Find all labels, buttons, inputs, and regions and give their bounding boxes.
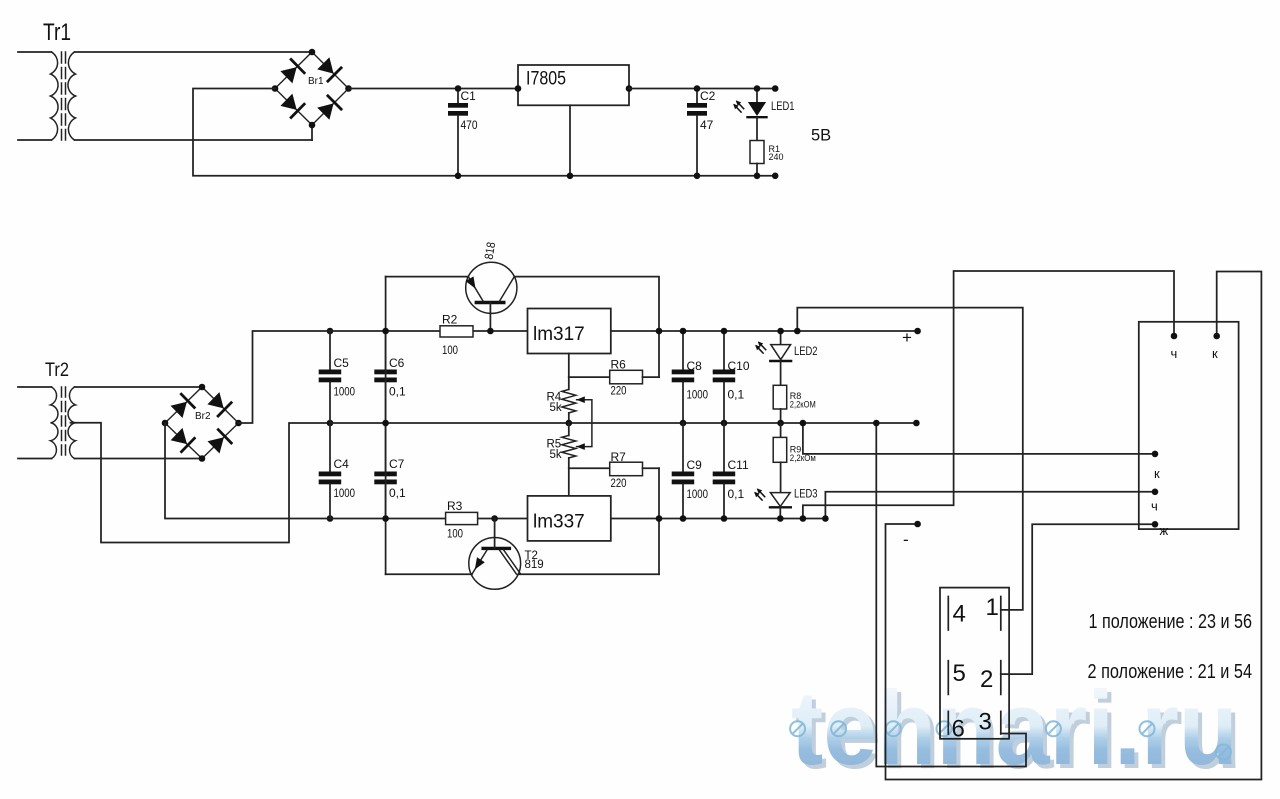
wire zh pin to pin2 [1001, 524, 1155, 674]
svg-text:1000: 1000 [687, 388, 709, 402]
wire positive rail [330, 330, 528, 332]
node Br2 left [162, 420, 169, 427]
node bus mid rail [382, 420, 389, 427]
connector block right [1139, 322, 1239, 529]
node output terminal 5V plus [772, 85, 779, 92]
node LED3 bottom [777, 515, 784, 522]
wire Br1 bottom node drop [311, 125, 313, 140]
node Br2 top [199, 384, 206, 391]
resistor R6 [610, 370, 643, 384]
capacitor C10 [713, 331, 736, 423]
svg-text:4: 4 [953, 601, 966, 628]
svg-text:1000: 1000 [334, 385, 356, 399]
node C11 bottom [721, 515, 728, 522]
svg-text:Tr1: Tr1 [43, 19, 71, 46]
svg-text:0,1: 0,1 [389, 486, 406, 500]
node bus negative rail [382, 515, 389, 522]
resistor R1 [750, 141, 764, 164]
svg-text:C4: C4 [334, 457, 350, 471]
node I7805 input pin [515, 85, 522, 92]
node R7 riser negative rail [656, 515, 663, 522]
wire Tr2 primary bottom [18, 458, 52, 460]
node terminal mid [913, 420, 920, 427]
svg-text:C5: C5 [334, 356, 350, 370]
svg-text:ж: ж [1160, 523, 1169, 538]
wire R6 to positive rail [643, 376, 660, 378]
wire Tr2 primary top [18, 386, 52, 388]
svg-text:C9: C9 [687, 458, 703, 472]
pin ch top [1171, 333, 1178, 340]
transistor T2 [469, 519, 521, 590]
svg-text:47: 47 [700, 118, 714, 132]
pin zh left [1152, 521, 1159, 528]
pin bar 4 [947, 597, 949, 631]
node mid rail pin3 branch [873, 420, 880, 427]
diode Br2 upper-left [171, 402, 187, 418]
svg-text:0,1: 0,1 [728, 388, 745, 402]
potentiometer R5 [562, 423, 576, 468]
wire k-left from mid rail [803, 423, 1155, 454]
pin bar 6 [947, 711, 949, 734]
transformer Tr2 left winding [51, 387, 58, 459]
node C9 bottom [680, 515, 687, 522]
svg-text:LED1: LED1 [771, 99, 795, 113]
svg-text:tehnari.ru: tehnari.ru [791, 670, 1238, 787]
svg-text:5k: 5k [550, 402, 562, 414]
node Br1 bottom [309, 122, 316, 129]
svg-text:R7: R7 [611, 450, 627, 464]
node Br1 right [345, 85, 352, 92]
wire adj node to R6 [569, 376, 610, 378]
wire T1 collector [514, 277, 659, 378]
svg-text:1: 1 [986, 594, 999, 621]
resistor R9 [773, 423, 787, 493]
svg-text:100: 100 [447, 527, 463, 541]
svg-text:C1: C1 [461, 89, 477, 103]
svg-text:2 положение : 21 и 54: 2 положение : 21 и 54 [1088, 660, 1253, 683]
svg-text:R2: R2 [442, 313, 458, 327]
wire mid rail [330, 422, 916, 424]
capacitor C4 [319, 423, 342, 519]
wire mid rail to pin3 [876, 423, 1026, 767]
wire R7 to negative rail riser [643, 467, 660, 469]
diode Br2 upper-right [207, 392, 223, 408]
wire lm337 adj pin [568, 468, 570, 496]
diode Br2 lower-right [208, 437, 224, 453]
wire R8 to mid rail [780, 409, 782, 423]
svg-text:2,2кОМ: 2,2кОМ [790, 400, 816, 410]
node R4 bottom mid rail [566, 420, 573, 427]
svg-text:Br2: Br2 [195, 411, 211, 422]
diode Br1 upper-left [280, 67, 296, 83]
transformer Tr1 left winding [51, 52, 59, 140]
wire lm317 adj pin [568, 354, 570, 378]
pin ch left [1152, 489, 1159, 496]
node T1 base [487, 328, 494, 335]
regulator I7805 [518, 65, 629, 105]
svg-text:C8: C8 [687, 359, 703, 373]
svg-text:Tr2: Tr2 [45, 360, 69, 381]
pin bar 1 [1000, 597, 1002, 631]
diode Br2 lower-left [171, 428, 187, 444]
LED1 emission arrows [733, 100, 744, 112]
wire I7805 ground pin [569, 105, 571, 176]
wire Tr1 secondary top to Br1 [75, 51, 313, 53]
wire T2 emitter [386, 573, 472, 575]
svg-text:C10: C10 [728, 359, 750, 373]
arrow R5 wiper [576, 443, 585, 450]
bridge rectifier Br2 [165, 387, 239, 459]
svg-text:3: 3 [979, 709, 992, 736]
capacitor C5 [319, 331, 342, 423]
svg-text:lm317: lm317 [533, 324, 585, 345]
transformer Tr2 core [61, 387, 63, 459]
node Br1 left [272, 85, 279, 92]
node LED1 top [754, 85, 761, 92]
node C5 top [327, 328, 334, 335]
node LED2 top [777, 328, 784, 335]
transformer Tr1 right winding [68, 52, 76, 140]
capacitor C8 [672, 331, 695, 423]
node T2 base junction [491, 515, 498, 522]
capacitor C2 [687, 89, 707, 176]
wire R4 R5 wiper link [577, 400, 592, 447]
wire Tr2 center tap to mid rail [71, 423, 331, 543]
svg-text:R3: R3 [447, 499, 463, 513]
svg-text:0,1: 0,1 [728, 487, 745, 501]
connector block 6pin [940, 588, 1009, 739]
node Br2 right [235, 420, 242, 427]
svg-text:818: 818 [482, 241, 499, 261]
svg-text:-: - [903, 530, 909, 549]
node output terminal 5V minus [772, 173, 779, 180]
pin bar 3 [1000, 711, 1002, 734]
wire Tr2 secondary bottom to Br2 [75, 458, 203, 460]
svg-text:к: к [1212, 346, 1218, 361]
bridge rectifier Br1 [275, 52, 349, 125]
node negative rail ch branch [800, 515, 807, 522]
resistor R7 [610, 462, 643, 476]
node I7805 ground [567, 173, 574, 180]
svg-text:100: 100 [442, 343, 458, 357]
svg-text:LED3: LED3 [794, 487, 818, 501]
svg-text:R6: R6 [611, 358, 627, 372]
node C10 bottom [721, 420, 728, 427]
svg-text:220: 220 [611, 476, 627, 490]
node C1 bottom [455, 173, 462, 180]
LED3 [770, 493, 791, 519]
LED2 [770, 331, 791, 385]
node positive branch [794, 328, 801, 335]
wire Tr2 secondary top to Br2 [75, 386, 203, 388]
node bus positive rail [382, 328, 389, 335]
transformer Tr1 core [61, 52, 63, 140]
svg-text:1 положение : 23 и 56: 1 положение : 23 и 56 [1089, 610, 1253, 633]
regulator lm317 [528, 309, 611, 354]
svg-text:819: 819 [525, 559, 544, 571]
wire emitter bus vertical [385, 277, 387, 575]
node terminal minus [914, 521, 921, 528]
pin k top [1213, 333, 1220, 340]
svg-text:lm337: lm337 [533, 512, 585, 533]
wire adj node to R7 [569, 467, 610, 469]
node R6 riser [656, 328, 663, 335]
wire positive output branch [797, 308, 1023, 610]
node C5 C4 junction [327, 420, 334, 427]
wire minus terminal to k-top [886, 272, 1262, 780]
wire negative rail [330, 518, 528, 520]
wire T1 emitter [386, 276, 469, 278]
LED3 emission arrows [754, 488, 765, 500]
regulator lm337 [528, 496, 611, 541]
pin k left [1152, 451, 1159, 458]
capacitor C6 [374, 331, 397, 423]
svg-text:5В: 5В [811, 127, 831, 145]
potentiometer R4 [562, 377, 576, 423]
capacitor C11 [713, 423, 736, 519]
wire ch-top from negative rail [803, 271, 1174, 519]
diode Br1 lower-right [317, 103, 333, 119]
node R8 bottom [777, 420, 784, 427]
wire Br2 left node to negative rail [165, 423, 330, 519]
wire riser R7 T2 collector [658, 468, 660, 574]
transistor T1 [466, 262, 517, 331]
node negative rail end [822, 515, 829, 522]
svg-text:+: + [902, 328, 912, 347]
node C10 top [721, 328, 728, 335]
svg-text:6: 6 [952, 716, 965, 743]
wire R1 to ground rail [756, 164, 758, 176]
diode Br1 upper-right [317, 57, 333, 73]
svg-text:C7: C7 [389, 457, 405, 471]
resistor R8 [773, 385, 787, 409]
node I7805 output pin [626, 85, 633, 92]
node C2 top [694, 85, 701, 92]
svg-text:LED2: LED2 [794, 344, 818, 358]
svg-text:470: 470 [461, 118, 478, 132]
svg-text:240: 240 [769, 152, 784, 162]
wire Tr1 primary top [18, 51, 52, 53]
node C8 top [680, 328, 687, 335]
node Br2 bottom [199, 455, 206, 462]
svg-text:к: к [1154, 466, 1160, 481]
LED1 [748, 89, 767, 141]
node C1 top [455, 85, 462, 92]
node C2 bottom [694, 173, 701, 180]
pin bar 2 [1000, 661, 1002, 695]
svg-text:220: 220 [611, 384, 627, 398]
svg-text:2: 2 [980, 666, 993, 693]
wire Br1 right node to I7805 [349, 88, 519, 90]
svg-text:Br1: Br1 [308, 76, 324, 87]
node R1 bottom [754, 173, 761, 180]
resistor R3 [446, 512, 478, 524]
svg-text:5: 5 [953, 660, 966, 687]
wire T2 collector [518, 573, 659, 575]
svg-text:ч: ч [1171, 346, 1178, 361]
wire ch-left from negative rail [825, 492, 1155, 519]
node terminal plus [914, 328, 921, 335]
svg-text:5k: 5k [550, 449, 562, 461]
svg-text:1000: 1000 [334, 486, 356, 500]
wire ground rail top section [458, 175, 775, 177]
capacitor C1 [448, 89, 468, 176]
node Br1 top [309, 49, 316, 56]
svg-text:C6: C6 [389, 356, 405, 370]
LED2 emission arrows [755, 341, 766, 353]
svg-text:C11: C11 [728, 458, 749, 472]
arrow R4 wiper [576, 396, 585, 403]
svg-text:ч: ч [1151, 499, 1158, 514]
wire I7805 output to terminal [629, 88, 775, 90]
node C4 bottom [327, 515, 334, 522]
node mid rail k branch [800, 420, 807, 427]
svg-text:I7805: I7805 [526, 69, 566, 90]
svg-text:C2: C2 [700, 89, 716, 103]
transformer Tr2 right winding [68, 387, 75, 459]
capacitor C9 [672, 423, 695, 519]
diode Br1 lower-left [280, 94, 296, 110]
svg-text:0,1: 0,1 [389, 385, 406, 399]
node C8 bottom [680, 420, 687, 427]
svg-text:1000: 1000 [687, 487, 709, 501]
wire Tr1 primary bottom [18, 139, 52, 141]
pin bar 5 [947, 661, 949, 695]
wire Br1 left node to ground rail [193, 89, 458, 176]
capacitor C7 [374, 423, 397, 519]
wire Br2 right node to positive rail [239, 331, 331, 423]
wire Tr1 secondary bottom to Br1 [75, 139, 313, 141]
resistor R2 [440, 326, 473, 337]
